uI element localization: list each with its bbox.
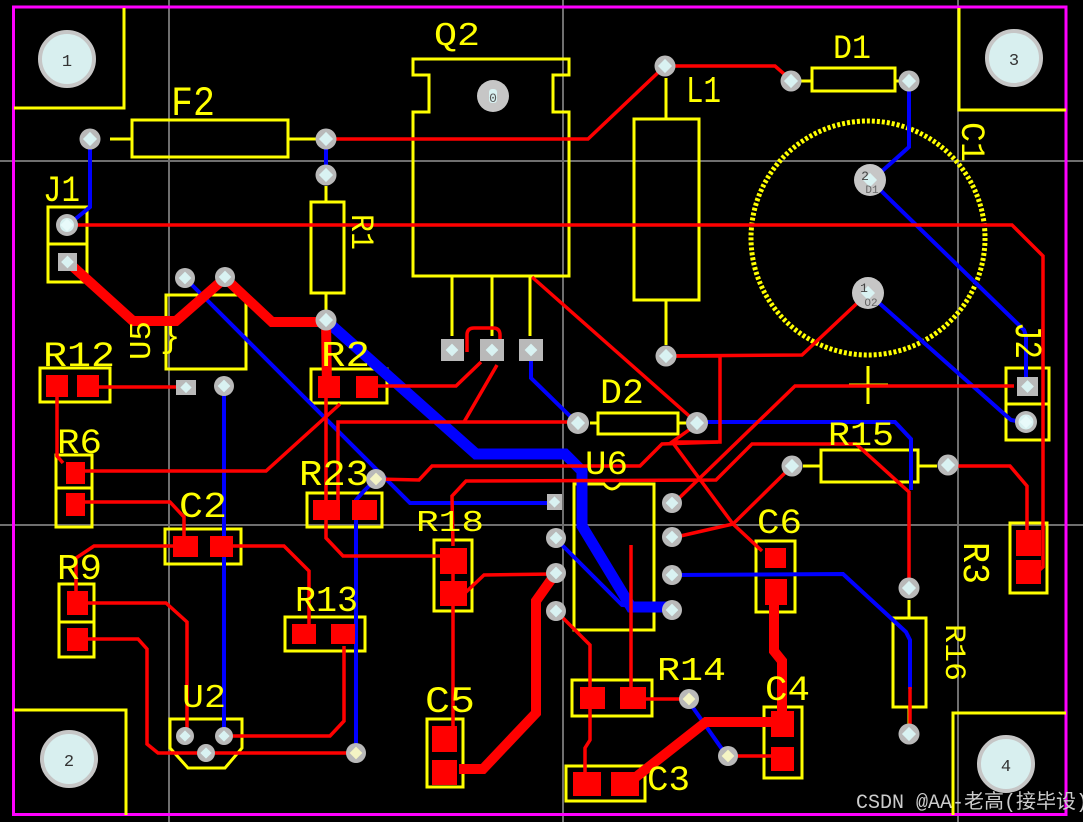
corner bracket bottom-left	[14, 710, 126, 815]
pad R2-2	[356, 376, 378, 398]
pad C2-2	[210, 536, 233, 557]
capacitor C4 outline	[764, 707, 802, 778]
via U5 left	[175, 268, 195, 288]
connector J1 outline	[48, 207, 87, 282]
wire red top rail F2 to L1 via to D1 via	[326, 66, 791, 139]
svg-text:C6: C6	[757, 504, 802, 544]
svg-text:F2: F2	[171, 80, 215, 128]
via U2-1	[176, 727, 194, 745]
connector J2 outline	[1006, 368, 1049, 440]
svg-text:U6: U6	[585, 447, 628, 485]
pad R6-2	[66, 493, 85, 516]
resistor R12 outline	[40, 368, 110, 402]
svg-text:R2: R2	[321, 336, 370, 377]
pad R13-1	[292, 624, 316, 644]
corner bracket top-left	[14, 8, 124, 108]
via pale U2	[346, 743, 366, 763]
wire thick red C6 bottom pad to C4 top pad	[774, 600, 782, 717]
pad C4-2	[771, 747, 794, 771]
pad R23-2	[352, 500, 377, 520]
via U5 bottom	[214, 376, 234, 396]
wire blue D1 right via to C1 top pad	[871, 84, 909, 181]
wire red R6 bottom pad to C2 left pad	[84, 502, 184, 540]
pad R12-2	[77, 375, 99, 397]
resistor R16 outline	[893, 600, 926, 726]
pad R9-1	[67, 591, 88, 615]
svg-text:CSDN @AA-老高(接毕设): CSDN @AA-老高(接毕设)	[856, 790, 1083, 815]
wire red R23 left pad riser to D2 left via	[338, 422, 576, 500]
capacitor C6 outline	[756, 541, 795, 612]
svg-text:U5: U5	[125, 321, 160, 360]
pad J2-1	[1017, 377, 1038, 396]
svg-text:R23: R23	[299, 455, 369, 496]
resistor R23 outline	[307, 493, 382, 527]
pad R2-1	[318, 376, 340, 398]
wire blue C1 bottom pad to J2 pad2	[869, 294, 1022, 422]
pad C5-1	[432, 726, 457, 752]
pad R14-2	[620, 687, 646, 709]
svg-text:D1: D1	[833, 31, 871, 69]
svg-text:C3: C3	[647, 761, 690, 801]
pad C3-1	[573, 772, 601, 796]
svg-text:U2: U2	[182, 680, 226, 717]
via R1 bottom	[316, 310, 337, 331]
capacitor C1 outline (dashed circle)	[751, 121, 985, 355]
pad Q2-1	[441, 339, 464, 361]
wire blue U6 right via3 to R16	[676, 574, 910, 689]
pad R3-2	[1016, 560, 1041, 584]
pad R6-1	[66, 462, 85, 484]
wire red Q2 bottom to D2 right via	[532, 277, 696, 422]
pad C6-1	[765, 548, 786, 568]
capacitor C5 outline	[427, 719, 463, 787]
svg-text:R16: R16	[936, 624, 970, 681]
svg-text:1: 1	[860, 281, 868, 296]
pad R12-1	[46, 375, 68, 397]
wire red J2 pad1 to U6 right via1	[673, 386, 1014, 504]
svg-text:1: 1	[62, 53, 72, 72]
IC U6 outline	[574, 484, 654, 630]
via U6 right1	[662, 493, 682, 513]
wire red D2 right via elbow to L1 bottom via	[668, 356, 720, 442]
wire red R2 right pad to Q2 pad2	[378, 362, 481, 386]
resistor R13 outline	[285, 617, 365, 651]
via R15 right	[938, 455, 959, 476]
pad Q2-2	[480, 339, 504, 361]
svg-text:R3: R3	[952, 542, 995, 584]
IC U2 outline	[170, 719, 242, 768]
via L1 top	[655, 56, 676, 77]
wire blue U6 left via to U6 right via	[557, 540, 665, 609]
pad Q2-3	[519, 339, 543, 361]
svg-text:2: 2	[64, 753, 74, 772]
transistor Q2 outline	[413, 59, 569, 276]
pad R14-1	[580, 687, 605, 709]
wire blue F2 via to R1 top via	[324, 141, 328, 173]
corner bracket top-right	[959, 8, 1066, 110]
via R1 top	[316, 165, 337, 186]
via F2 right	[316, 129, 337, 150]
resistor R15 outline	[803, 450, 937, 482]
via L1 bottom	[656, 346, 677, 367]
via U2-2	[215, 727, 233, 745]
wire red long rail J1 pad1 across board to R3	[68, 225, 1043, 573]
via D2 right	[686, 412, 708, 434]
wire red R9 top pad to U2 via1	[85, 603, 187, 734]
svg-text:4: 4	[1001, 758, 1011, 777]
via pale R23	[366, 469, 386, 489]
wire red R14 right pad to pale via	[644, 697, 686, 701]
wire red R23 left pad to R18 top pad	[326, 518, 442, 556]
IC U5 outline	[160, 295, 246, 369]
via U6 left2	[546, 563, 566, 583]
wire thick red C5 bottom pad to U6 via	[459, 577, 553, 769]
svg-text:R14: R14	[657, 653, 726, 690]
mounting hole 3	[987, 31, 1041, 85]
svg-text:R15: R15	[828, 418, 894, 456]
wire red R12 right pad to square pad	[96, 385, 180, 389]
pad C4-1	[771, 711, 794, 737]
svg-text:J2: J2	[1004, 322, 1047, 359]
capacitor C2 outline	[165, 529, 241, 564]
pad C5-2	[432, 760, 457, 785]
svg-text:R12: R12	[43, 337, 115, 377]
wire red R15 left via to U6 right via2	[676, 468, 790, 537]
svg-text:J1: J1	[43, 171, 80, 213]
svg-text:R6: R6	[57, 424, 102, 464]
wire red R15 right via to R3 top pad	[952, 466, 1027, 535]
pad R18-1	[440, 548, 467, 574]
wire red Q2 pad1 to pad2 arch	[467, 328, 500, 352]
grid line horizontal 1	[0, 160, 1083, 162]
via F2 left	[80, 129, 101, 150]
pad C3-2	[611, 772, 639, 796]
wire red R13 right pad to U2 via2	[228, 646, 344, 736]
svg-text:C5: C5	[425, 682, 475, 724]
corner bracket bottom-right	[953, 713, 1066, 815]
wire blue Q2 pad3 to D2 left via	[531, 360, 578, 423]
wire blue R14 pale via to C4 pale via	[689, 702, 727, 755]
via U2-3	[197, 744, 215, 762]
grid line vertical 2	[562, 0, 564, 822]
wire red R9 bottom pad to U2 via3 rail	[85, 639, 352, 753]
via U6 right3	[662, 565, 682, 585]
pad C2-1	[173, 536, 198, 557]
svg-text:R1: R1	[342, 214, 379, 250]
via D1 right	[899, 71, 920, 92]
wire red R12 left pad to R6 top pad	[57, 396, 63, 463]
pad C1 top	[854, 164, 886, 197]
resistor R9 outline	[59, 584, 94, 657]
wire red U6 via3 to R14 left pad to C3 left pad	[558, 613, 590, 775]
capacitor C1 polarity plus mark	[849, 366, 888, 404]
wire thick blue R1 bottom via to U6 right via	[330, 324, 668, 607]
via J2 pad2	[1015, 411, 1037, 433]
via U5 right	[215, 267, 235, 287]
resistor R18 outline	[434, 540, 472, 611]
wire red R18 pads to C5 top pad	[451, 560, 455, 728]
svg-text:C1: C1	[951, 122, 989, 162]
svg-text:D1: D1	[865, 185, 879, 197]
resistor R2 outline	[311, 369, 387, 403]
pad R18-2	[440, 581, 467, 606]
wire red C2 right pad to R13 left pad	[231, 546, 309, 626]
wire thick red R1 via to R2 pad	[326, 320, 327, 390]
grid line vertical 1	[168, 0, 170, 822]
mounting hole 1	[40, 32, 94, 86]
wire red R18 bottom pad to U6 via	[465, 574, 553, 593]
wire red Q2 pad2 stub to riser	[464, 365, 497, 422]
capacitor C3 outline	[566, 766, 645, 801]
resistor R1 outline	[311, 186, 344, 310]
pad R23-1	[313, 500, 340, 520]
svg-text:D2: D2	[600, 374, 644, 414]
via pale R14	[679, 689, 699, 709]
wire blue F2 via to J1 pad1	[68, 142, 90, 225]
wire red junction to C6 top pad	[673, 443, 762, 551]
svg-text:L1: L1	[686, 71, 721, 114]
svg-text:C2: C2	[179, 487, 227, 528]
via U6 left1	[546, 528, 566, 548]
wire red R2 left pad to R23 left pad	[324, 398, 328, 502]
wire red R16 inner segment	[908, 687, 912, 731]
diode D1 outline	[800, 68, 902, 91]
svg-text:R13: R13	[295, 581, 358, 622]
wire blue C1 top pad to J2 pad1	[871, 181, 1026, 380]
mounting hole 2	[42, 732, 96, 786]
pad C6-2	[765, 579, 787, 605]
svg-text:0: 0	[489, 91, 497, 106]
svg-text:C4: C4	[765, 671, 810, 711]
wire blue D2 right via to R15 right area	[700, 422, 911, 490]
fuse F2 outline	[110, 120, 316, 157]
resistor R6 outline	[56, 455, 92, 527]
mounting hole 4	[979, 737, 1033, 791]
wire red C2 left pad to R9 top pad	[76, 546, 182, 595]
pad R9-2	[67, 628, 88, 651]
inductor L1 outline	[634, 78, 699, 345]
wire red R18 top pad to R15 to R16 via	[452, 444, 909, 586]
pad U6 square	[547, 494, 562, 510]
wire blue U5 via to U6 square pad	[186, 279, 550, 503]
pad U5 square	[176, 380, 196, 395]
diode D2 outline	[590, 413, 686, 434]
via R15 left	[782, 456, 803, 477]
via U6 left3	[546, 601, 566, 621]
via J1 pad1	[56, 214, 78, 236]
via U6 right4	[662, 600, 682, 620]
wire red L1 bottom via to C1 bottom pad	[668, 293, 868, 356]
wire red U6 pad to R14 right pad	[629, 545, 633, 698]
via D2 left	[567, 412, 589, 434]
pad J1-2	[58, 253, 77, 271]
svg-text:R9: R9	[57, 549, 102, 590]
via pale C4	[718, 746, 738, 766]
wire thick red J1 pad2 to R1 bottom via	[70, 264, 326, 322]
pad C1 bottom	[852, 277, 884, 310]
svg-text:R18: R18	[416, 506, 484, 541]
svg-text:2: 2	[861, 169, 869, 184]
resistor R14 outline	[572, 680, 652, 716]
pad R13-2	[331, 624, 355, 644]
svg-text:3: 3	[1009, 52, 1019, 71]
resistor R3 outline	[1010, 523, 1047, 593]
via U6 right2	[662, 527, 682, 547]
via R16 top	[899, 578, 920, 599]
via D1 left	[781, 71, 802, 92]
grid line vertical 3	[957, 0, 959, 822]
wire red R6 top pad to R2 left pad	[84, 404, 340, 471]
svg-text:Q2: Q2	[434, 18, 480, 55]
wire red C4 pale via to C4 bottom pad	[731, 754, 772, 758]
wire blue R23 pale via to R23 pad to U2 pale via	[356, 481, 374, 750]
via R16 bottom	[899, 724, 920, 745]
transistor Q2 leads	[452, 276, 530, 336]
via Q2 tab hole	[477, 80, 509, 112]
wire blue U5 bottom via to C2 to U2 via	[222, 388, 226, 734]
grid line horizontal 2	[0, 524, 1083, 526]
wire thick red C3 right pad to C4 top pad	[636, 722, 775, 777]
svg-text:O2: O2	[864, 298, 877, 310]
wire red R23 pale via to junction	[378, 442, 718, 480]
pad R3-1	[1016, 530, 1041, 556]
